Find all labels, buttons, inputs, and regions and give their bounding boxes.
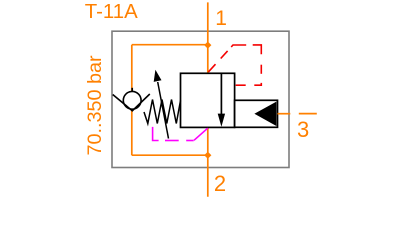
- check valve seat: [113, 94, 150, 111]
- spring: [144, 100, 181, 124]
- pilot line dash c: [231, 45, 246, 47]
- drain line vertical: [153, 127, 159, 141]
- svg-text:70..350 bar: 70..350 bar: [84, 55, 106, 155]
- adjustment arrow: [158, 82, 169, 139]
- junction node at port 2: [204, 152, 211, 159]
- wire port 1 vertical: [207, 2, 209, 73]
- main valve body: [181, 73, 235, 127]
- drain line dash c: [186, 140, 194, 142]
- wire left branch: [131, 45, 133, 156]
- pilot line dash a: [208, 64, 215, 72]
- wire port 3 outer segment: [299, 113, 317, 115]
- pilot line dash f: [254, 83, 261, 85]
- pilot line dash b: [221, 51, 228, 59]
- svg-text:2: 2: [214, 171, 226, 196]
- wire port 3 inner segment: [278, 113, 291, 115]
- flow arrow in valve: [220, 74, 222, 114]
- pilot poppet triangle: [254, 102, 276, 126]
- wire top rail: [132, 44, 208, 46]
- drain line dash b: [165, 140, 179, 142]
- wire bottom rail: [132, 154, 208, 156]
- envelope (cartridge boundary): [112, 31, 289, 167]
- svg-text:1: 1: [215, 7, 227, 30]
- check valve stub: [131, 88, 133, 92]
- svg-text:T-11A: T-11A: [85, 1, 138, 23]
- pilot line dash d: [253, 45, 262, 54]
- junction node at port 1: [204, 42, 211, 49]
- pilot stage box: [235, 100, 278, 127]
- drain line diagonal: [194, 128, 208, 140]
- pilot line dash g: [236, 84, 246, 86]
- pilot line dash e: [260, 65, 262, 74]
- check valve ball: [123, 91, 141, 109]
- svg-text:3: 3: [297, 117, 309, 142]
- wire valve outlet to port 2: [207, 127, 209, 197]
